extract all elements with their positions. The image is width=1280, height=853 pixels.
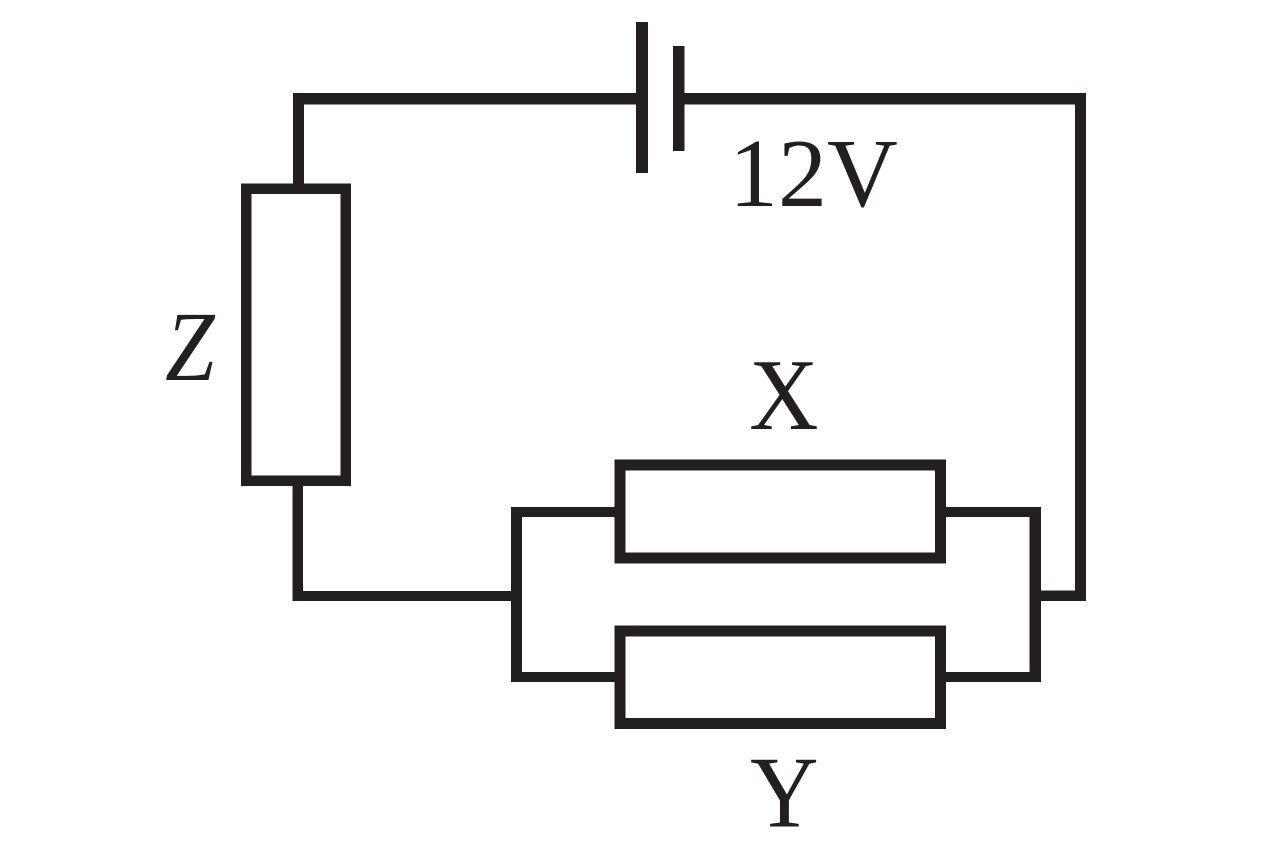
wire stub left bar to resistor Y xyxy=(522,672,620,682)
wire stub resistor Y to right bar xyxy=(940,672,1030,682)
wire top-right horizontal (battery to right side) xyxy=(685,93,1087,105)
wire stub resistor X to right bar xyxy=(940,507,1030,517)
node left bar of parallel group xyxy=(511,507,522,682)
wire right vertical xyxy=(1075,93,1086,601)
svg-text:X: X xyxy=(749,339,818,451)
resistor Y body xyxy=(620,631,941,724)
resistor Z body xyxy=(246,189,346,481)
wire left vertical lower (resistor Z to bottom wire) xyxy=(293,480,304,601)
resistor X body xyxy=(620,465,941,558)
battery B1 positive plate (long) xyxy=(636,22,648,173)
wire stub left bar to resistor X xyxy=(522,507,620,517)
svg-text:Y: Y xyxy=(750,736,818,849)
svg-text:12V: 12V xyxy=(729,120,898,228)
battery B1 negative plate (short) xyxy=(673,46,685,151)
wire top-left horizontal (battery to left branch) xyxy=(293,93,636,105)
wire left vertical upper (top wire to resistor Z) xyxy=(293,93,304,188)
node right bar of parallel group xyxy=(1030,507,1042,682)
svg-text:Z: Z xyxy=(165,292,216,402)
wire bottom horizontal xyxy=(293,591,523,601)
wire stub right bar to right vertical xyxy=(1041,591,1086,602)
